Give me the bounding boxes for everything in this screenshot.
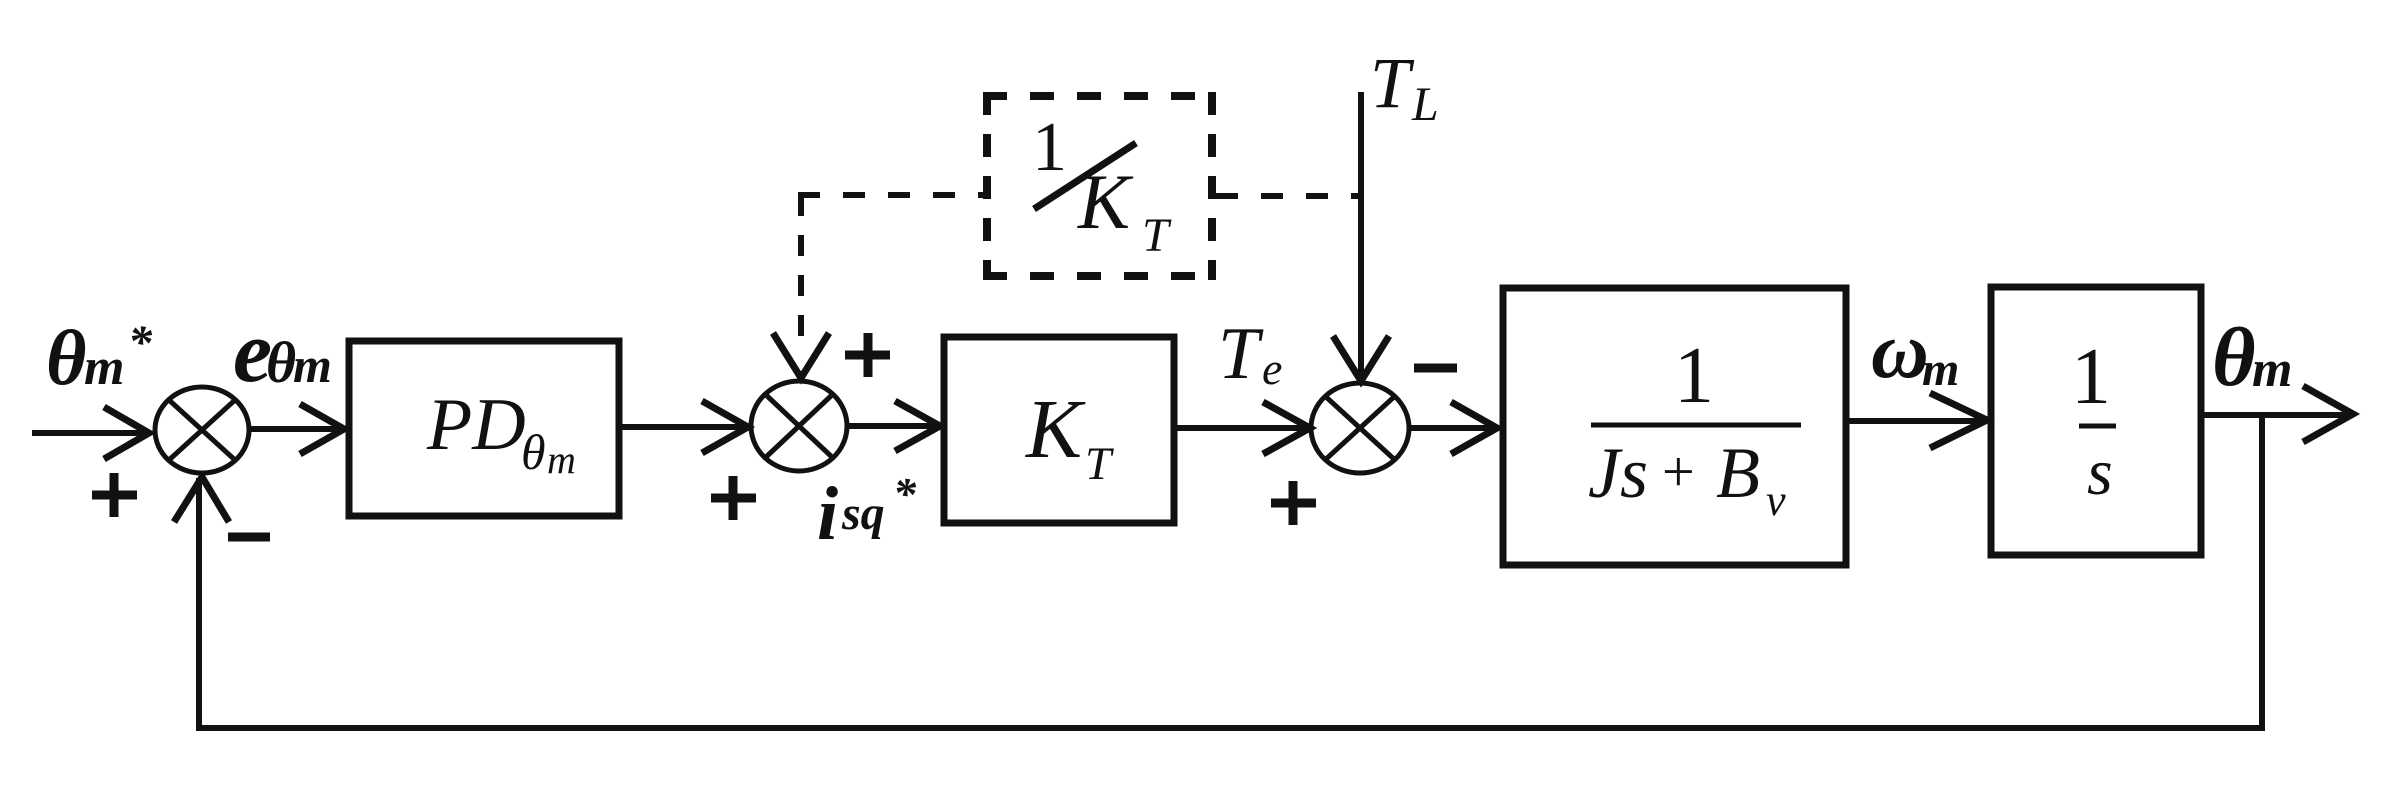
block KT [944,337,1174,523]
feedback wire left vertical up into S1 [174,477,229,731]
feedback wire right vertical from output [2259,415,2265,728]
plus sign at S2 top input [845,333,890,377]
node T_L label [1370,43,1439,131]
plus sign at S1 input [92,473,137,517]
svg-text:T: T [1370,43,1415,123]
minus sign at S3 top input [1414,364,1457,373]
wire input to summing junction S1 [32,407,149,459]
wire PD to summing junction S2 [619,401,748,453]
svg-text:1: 1 [1032,109,1067,186]
dashed wire from 1/KT block left edge [798,192,983,198]
svg-text:T: T [1085,438,1114,490]
node T_e label [1218,313,1282,395]
node e_theta_m label [233,304,332,401]
wire KT to summing junction S3 [1174,402,1310,454]
svg-text:B: B [1716,433,1760,513]
minus sign at S1 feedback [228,533,270,542]
summing junction S3 [1311,383,1409,473]
dashed wire from 1/KT block down into S2 [798,195,804,345]
block PD_theta_m [349,341,619,516]
wire S1 to PD block [249,404,344,454]
svg-text:1: 1 [1674,332,1714,420]
svg-text:m: m [2252,341,2292,398]
summing junction S1 [155,387,249,473]
svg-text:PD: PD [426,384,526,466]
svg-text:*: * [893,468,917,519]
svg-text:+: + [1662,439,1695,504]
block 1/(Js+Bv) [1503,288,1846,565]
node omega_m label [1871,307,1959,396]
wire S3 to plant block [1409,402,1497,454]
node theta_m output label [2212,311,2292,404]
svg-text:L: L [1411,78,1439,131]
svg-text:m: m [547,437,576,482]
svg-text:K: K [1025,383,1086,476]
wire S2 to KT block [847,401,940,451]
svg-text:i: i [817,472,838,556]
svg-text:sq: sq [841,487,885,540]
dashed wire from 1/KT block right edge to TL line [1216,193,1360,199]
svg-text:T: T [1218,313,1264,395]
svg-text:m: m [84,339,124,396]
block 1/s integrator [1991,287,2201,555]
svg-text:v: v [1766,476,1786,525]
svg-text:θ: θ [521,424,546,480]
svg-text:T: T [1142,209,1172,262]
svg-text:1: 1 [2071,333,2111,421]
svg-text:K: K [1077,158,1134,245]
svg-text:θ: θ [46,314,87,401]
svg-text:θ: θ [2212,311,2256,404]
wire plant block to 1/s block [1846,393,1987,448]
svg-text:*: * [128,316,153,369]
svg-text:ω: ω [1871,307,1929,395]
svg-text:m: m [1922,343,1959,396]
svg-text:e: e [1262,343,1282,394]
node i_sq* label [817,468,917,556]
wire 1/s to output [2201,386,2353,442]
node theta_m* input label [46,314,153,401]
dashed block 1/KT [983,92,1216,280]
svg-text:Js: Js [1588,433,1648,513]
summing junction S2 [751,381,847,471]
plus sign at S2 left input [711,476,756,520]
node T_L input wire with arrowhead into S3 [1333,92,1389,381]
svg-text:θ: θ [266,330,296,395]
svg-text:m: m [293,337,332,393]
feedback wire bottom horizontal [196,725,2265,731]
plus sign at S3 left input [1271,481,1316,525]
svg-text:s: s [2087,436,2113,509]
